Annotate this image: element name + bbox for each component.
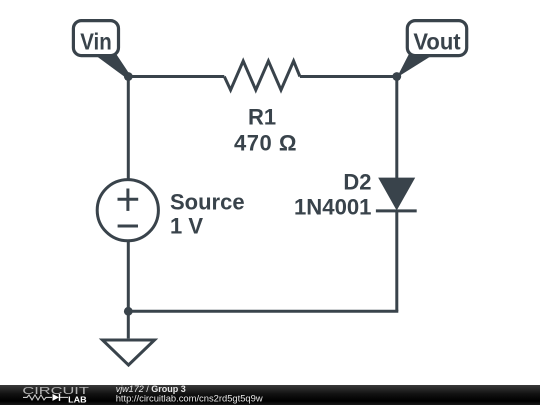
label D2 <box>343 169 371 194</box>
svg-text:http://circuitlab.com/cns2rd5g: http://circuitlab.com/cns2rd5gt5q9w <box>116 392 263 403</box>
wire top horizontal right: resistor to Vout node <box>300 75 397 78</box>
label Source <box>170 190 245 215</box>
svg-text:Vout: Vout <box>413 29 461 55</box>
wire top horizontal left: Vin node to resistor <box>128 75 224 78</box>
label 1 V <box>170 214 203 239</box>
svg-text:LAB: LAB <box>68 395 87 404</box>
svg-text:Source: Source <box>170 190 245 215</box>
wire left vertical upper: Vin node to source top <box>127 77 130 182</box>
wire ground stub <box>127 311 130 338</box>
svg-text:470 Ω: 470 Ω <box>234 130 297 155</box>
wire right vertical upper: Vout node to diode <box>395 77 398 179</box>
node Vin <box>124 72 133 81</box>
svg-text:1N4001: 1N4001 <box>294 195 372 220</box>
CircuitLab logo <box>22 385 89 404</box>
diode D2 <box>376 178 417 211</box>
label 1N4001 <box>294 195 372 220</box>
net label Vin callout <box>73 21 129 79</box>
svg-text:Vin: Vin <box>80 29 112 55</box>
wire left vertical lower: source bottom to ground node <box>127 240 130 312</box>
svg-text:R1: R1 <box>248 105 276 130</box>
ground <box>103 340 155 365</box>
voltage source V1 "Source" <box>97 180 158 241</box>
svg-text:D2: D2 <box>343 169 371 194</box>
footer bar <box>0 385 540 405</box>
wire bottom horizontal <box>128 310 398 313</box>
label R1 <box>248 105 276 130</box>
node Vout <box>392 72 401 81</box>
footer text line 1: vjw172 / Group 3 <box>116 384 186 394</box>
wire right vertical lower: diode to bottom wire <box>395 211 398 311</box>
label 470 Ω <box>234 130 297 155</box>
net label Vout callout <box>395 21 466 79</box>
resistor R1 zigzag <box>224 61 300 90</box>
svg-text:1 V: 1 V <box>170 214 203 239</box>
node ground junction <box>124 307 133 316</box>
footer text line 2: url <box>116 392 263 403</box>
